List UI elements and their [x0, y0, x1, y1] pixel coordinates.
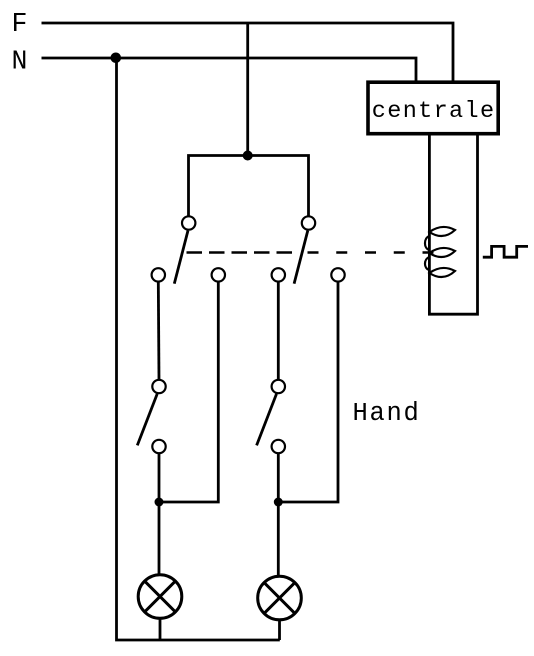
svg-text:F: F — [12, 9, 28, 39]
svg-text:N: N — [12, 46, 28, 76]
svg-text:centrale: centrale — [372, 98, 496, 125]
svg-text:Hand: Hand — [353, 399, 421, 428]
